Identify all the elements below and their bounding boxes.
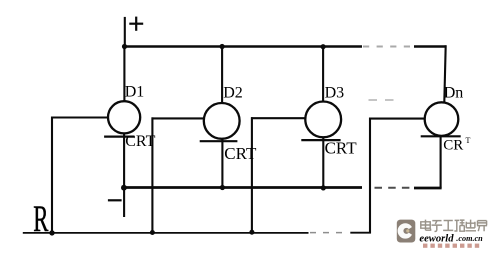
svg-text:D1: D1: [125, 84, 145, 101]
svg-text:D3: D3: [325, 84, 345, 101]
svg-text:.com.cn: .com.cn: [456, 234, 483, 243]
svg-text:T: T: [466, 136, 471, 145]
svg-text:CR: CR: [443, 137, 463, 153]
svg-text:eeworld: eeworld: [419, 233, 454, 244]
svg-text:D2: D2: [223, 84, 243, 101]
svg-text:CRT: CRT: [224, 144, 257, 163]
svg-text:Dn: Dn: [444, 85, 464, 102]
svg-text:CRT: CRT: [125, 133, 155, 150]
svg-text:CRT: CRT: [325, 139, 358, 158]
svg-text:R: R: [33, 199, 48, 240]
